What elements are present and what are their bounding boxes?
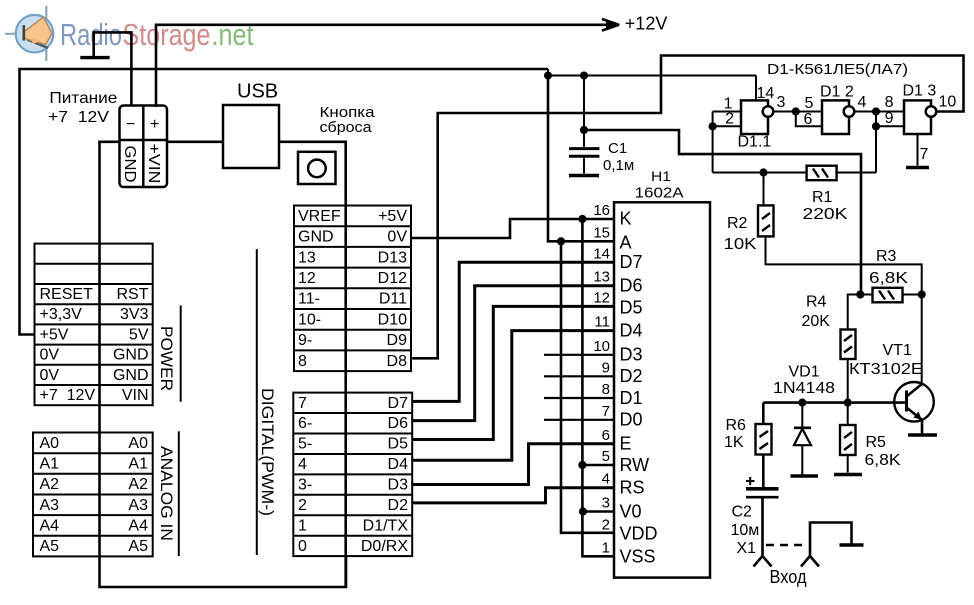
svg-text:D1 3: D1 3 [903, 83, 937, 100]
svg-text:5V: 5V [129, 327, 149, 344]
svg-text:11: 11 [594, 314, 610, 331]
svg-text:8: 8 [602, 381, 610, 398]
svg-text:A4: A4 [40, 517, 60, 534]
svg-text:10: 10 [593, 338, 610, 355]
svg-text:POWER: POWER [157, 326, 176, 391]
svg-text:R5: R5 [866, 434, 887, 451]
svg-text:7: 7 [602, 403, 610, 420]
svg-text:1N4148: 1N4148 [773, 380, 835, 397]
svg-text:R1: R1 [812, 189, 833, 206]
svg-text:D5: D5 [388, 436, 409, 453]
svg-text:X1: X1 [737, 540, 757, 557]
svg-text:D1-К561ЛЕ5(ЛА7): D1-К561ЛЕ5(ЛА7) [767, 61, 908, 78]
svg-text:VSS: VSS [620, 547, 656, 567]
svg-text:VIN: VIN [122, 387, 149, 404]
svg-text:C2: C2 [732, 504, 753, 521]
svg-text:1602A: 1602A [635, 184, 684, 201]
svg-text:VT1: VT1 [883, 342, 912, 359]
svg-text:16: 16 [593, 202, 610, 219]
svg-text:8: 8 [885, 94, 894, 111]
svg-text:7: 7 [920, 146, 929, 163]
svg-text:H1: H1 [651, 168, 671, 184]
svg-text:A2: A2 [128, 476, 148, 493]
svg-text:6,8K: 6,8K [865, 452, 901, 469]
svg-text:7: 7 [298, 395, 307, 412]
svg-text:A1: A1 [40, 456, 60, 473]
svg-text:R2: R2 [727, 215, 748, 232]
svg-text:14: 14 [593, 245, 610, 262]
svg-text:GND: GND [113, 367, 149, 384]
svg-text:5: 5 [805, 95, 814, 112]
svg-text:1: 1 [602, 539, 610, 556]
svg-text:A2: A2 [40, 476, 60, 493]
svg-text:D0: D0 [620, 410, 643, 430]
svg-text:0V: 0V [40, 367, 60, 384]
svg-text:RST: RST [117, 286, 149, 303]
svg-text:.net: .net [212, 17, 254, 52]
svg-text:GND: GND [298, 229, 334, 246]
svg-text:2: 2 [725, 111, 734, 128]
svg-text:R4: R4 [806, 294, 827, 311]
svg-text:GND: GND [121, 146, 138, 183]
svg-text:5: 5 [602, 448, 610, 465]
svg-text:D4: D4 [388, 456, 409, 473]
svg-text:−: − [126, 116, 135, 133]
svg-text:6: 6 [804, 111, 813, 128]
svg-text:D1 2: D1 2 [820, 84, 854, 101]
svg-text:10м: 10м [731, 522, 760, 539]
svg-text:D7: D7 [388, 395, 409, 412]
svg-text:VDD: VDD [620, 524, 658, 544]
svg-text:3: 3 [602, 495, 610, 512]
svg-text:12: 12 [298, 270, 316, 287]
svg-text:+5V: +5V [378, 208, 407, 225]
svg-text:Storage: Storage [123, 17, 211, 52]
svg-text:220K: 220K [803, 206, 848, 223]
svg-text:14: 14 [757, 85, 775, 102]
svg-text:D7: D7 [620, 252, 643, 272]
svg-text:+7 12V: +7 12V [40, 387, 96, 404]
svg-text:C1: C1 [608, 140, 627, 157]
svg-text:GND: GND [113, 347, 149, 364]
svg-text:3: 3 [777, 94, 786, 111]
svg-text:D4: D4 [620, 321, 643, 341]
svg-text:D2: D2 [620, 366, 643, 386]
svg-text:+7 12V: +7 12V [48, 109, 109, 126]
svg-text:A0: A0 [40, 435, 60, 452]
svg-text:D1: D1 [620, 388, 643, 408]
svg-text:D1.1: D1.1 [738, 134, 772, 151]
svg-text:1K: 1K [724, 434, 744, 451]
svg-text:15: 15 [593, 224, 610, 241]
svg-text:VREF: VREF [298, 208, 341, 225]
svg-text:A0: A0 [128, 435, 148, 452]
svg-text:4: 4 [602, 471, 610, 488]
svg-text:11-: 11- [298, 291, 320, 308]
svg-text:1: 1 [298, 517, 307, 534]
svg-text:D3: D3 [388, 477, 409, 494]
svg-text:+: + [150, 116, 159, 133]
svg-text:0V: 0V [40, 347, 60, 364]
svg-text:A3: A3 [128, 497, 148, 514]
svg-text:D11: D11 [379, 291, 407, 308]
svg-text:RW: RW [620, 455, 650, 475]
svg-text:D1/TX: D1/TX [363, 517, 409, 534]
svg-text:20K: 20K [802, 313, 831, 330]
svg-text:A1: A1 [128, 456, 148, 473]
svg-text:+3,3V: +3,3V [40, 306, 83, 323]
svg-text:R3: R3 [876, 248, 897, 265]
svg-text:0: 0 [298, 538, 307, 555]
svg-text:4: 4 [298, 456, 307, 473]
svg-text:2: 2 [298, 497, 307, 514]
svg-text:10: 10 [939, 94, 957, 111]
svg-text:8: 8 [298, 353, 307, 370]
svg-text:D6: D6 [388, 415, 409, 432]
svg-text:12: 12 [593, 289, 610, 306]
svg-text:0V: 0V [387, 229, 407, 246]
svg-text:9: 9 [885, 110, 894, 127]
svg-text:+VIN: +VIN [145, 144, 162, 184]
svg-text:10K: 10K [724, 236, 757, 253]
svg-text:+5V: +5V [40, 327, 69, 344]
svg-text:D0/RX: D0/RX [361, 538, 408, 555]
svg-text:Вход: Вход [770, 567, 807, 587]
svg-text:КТ3102Е: КТ3102Е [849, 361, 923, 378]
svg-text:Питание: Питание [49, 90, 117, 107]
svg-text:RESET: RESET [40, 286, 94, 303]
svg-text:3-: 3- [298, 477, 312, 494]
svg-text:V0: V0 [620, 502, 642, 522]
svg-text:сброса: сброса [320, 119, 373, 136]
svg-text:D8: D8 [387, 353, 408, 370]
svg-text:D13: D13 [378, 249, 407, 266]
svg-text:6-: 6- [298, 415, 312, 432]
svg-text:A3: A3 [40, 497, 60, 514]
svg-text:5-: 5- [298, 436, 312, 453]
svg-text:VD1: VD1 [789, 364, 820, 381]
svg-text:USB: USB [237, 81, 278, 103]
svg-text:0,1м: 0,1м [603, 157, 634, 174]
svg-text:3V3: 3V3 [120, 306, 149, 323]
svg-text:D9: D9 [387, 332, 408, 349]
svg-text:D5: D5 [620, 298, 643, 318]
svg-text:ANALOG IN: ANALOG IN [157, 446, 176, 541]
svg-text:+12V: +12V [625, 14, 668, 34]
svg-text:A5: A5 [40, 538, 60, 555]
svg-text:2: 2 [602, 516, 610, 533]
svg-text:Radio: Radio [60, 17, 122, 52]
svg-text:6: 6 [602, 427, 610, 444]
svg-text:13: 13 [298, 249, 316, 266]
svg-text:RS: RS [620, 478, 645, 498]
svg-text:A4: A4 [128, 517, 148, 534]
svg-text:A: A [620, 233, 632, 253]
svg-text:4: 4 [858, 94, 867, 111]
svg-text:D3: D3 [620, 345, 643, 365]
svg-text:D12: D12 [378, 270, 407, 287]
svg-text:9: 9 [602, 359, 610, 376]
svg-text:6,8K: 6,8K [869, 270, 908, 287]
svg-text:13: 13 [593, 269, 610, 286]
svg-text:E: E [620, 434, 632, 454]
svg-text:9-: 9- [298, 332, 312, 349]
svg-text:D6: D6 [620, 276, 643, 296]
svg-text:10-: 10- [298, 311, 321, 328]
svg-text:A5: A5 [128, 538, 148, 555]
svg-text:DIGITAL(PWM-): DIGITAL(PWM-) [258, 388, 277, 516]
svg-text:R6: R6 [726, 417, 747, 434]
svg-text:K: K [620, 209, 632, 229]
svg-text:D10: D10 [378, 311, 407, 328]
svg-text:D2: D2 [388, 497, 409, 514]
